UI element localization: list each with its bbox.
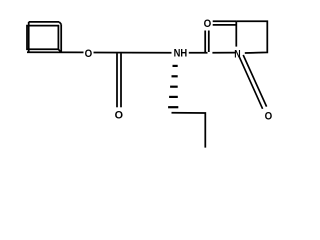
- svg-text:O: O: [85, 48, 93, 60]
- svg-text:N: N: [234, 49, 240, 61]
- svg-text:O: O: [115, 109, 124, 121]
- svg-text:O: O: [265, 110, 273, 122]
- svg-text:O: O: [204, 18, 212, 30]
- svg-text:NH: NH: [174, 47, 188, 59]
